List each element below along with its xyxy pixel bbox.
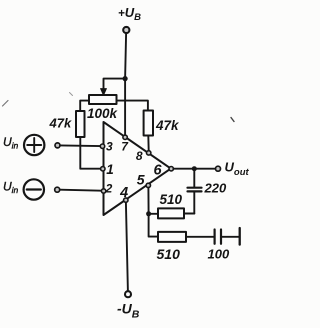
resistor R2 47k (right) body [144, 111, 153, 136]
+UB supply terminal [123, 27, 129, 33]
label 100k [87, 106, 119, 121]
potentiometer R3 100k body [89, 95, 117, 104]
label 47k left [49, 116, 72, 131]
label 47k right [155, 118, 180, 133]
svg-text:Uout: Uout [225, 160, 250, 178]
svg-text:Uin: Uin [3, 135, 19, 151]
wire junction down to pin 7 [124, 79, 126, 136]
resistor R4 510 (upper) body [158, 208, 184, 218]
pin 7 terminal [123, 135, 127, 139]
wire pin 4 down to -UB [126, 202, 128, 291]
svg-text:8: 8 [136, 149, 143, 163]
open end bar [239, 228, 241, 245]
pot right lead (crosses main vertical, no dot) [117, 101, 148, 111]
pin 4 terminal [124, 198, 128, 202]
wire input- to pin 2 [60, 190, 102, 191]
capacitor C1 bottom lead [193, 191, 195, 213]
label Uin bottom [3, 180, 19, 196]
R2 bottom lead to pin 8 [147, 136, 149, 152]
input terminal plus [55, 143, 60, 148]
svg-text:Uin: Uin [3, 180, 19, 196]
svg-text:1: 1 [106, 162, 114, 177]
node feedback junction [146, 211, 151, 216]
pin number 2 [105, 182, 113, 196]
label 220 [204, 181, 227, 196]
resistor R5 510 (lower) body [158, 232, 186, 242]
svg-text:+UB: +UB [118, 5, 141, 23]
wire output pin 6 to Uout [174, 168, 216, 170]
stray scan speck left [70, 93, 73, 96]
pin number 6 [153, 163, 162, 179]
wire pin 5 down to junction [147, 188, 149, 214]
pot left lead [80, 101, 89, 111]
wire R4 right to C1 bottom [184, 213, 194, 215]
label +UB [118, 5, 141, 23]
svg-text:47k: 47k [49, 116, 72, 131]
pin 3 terminal [100, 144, 104, 148]
node output junction [192, 166, 197, 171]
input terminal minus [55, 187, 60, 192]
pin number 7 [121, 139, 129, 153]
label Uin top [3, 135, 19, 151]
svg-text:100k: 100k [87, 106, 119, 121]
pin 1 terminal [101, 167, 105, 171]
label 510 upper [160, 192, 183, 207]
pin number 5 [137, 172, 145, 188]
potentiometer wiper arm with arrow [101, 79, 123, 96]
label 100 [208, 247, 230, 262]
wire R5 right to C2 [186, 236, 214, 238]
node wiper junction [123, 76, 128, 81]
svg-text:220: 220 [204, 181, 227, 196]
capacitor C1 220 top lead [193, 169, 195, 187]
resistor R1 47k (left) body [76, 111, 85, 137]
svg-text:510: 510 [160, 192, 183, 207]
svg-text:47k: 47k [155, 118, 180, 133]
Uin- source symbol [24, 179, 44, 199]
pin number 4 [119, 185, 128, 201]
stray scan tick bottom-left [3, 101, 9, 107]
wire junction down to R5 left [149, 214, 158, 237]
svg-text:4: 4 [119, 185, 128, 201]
svg-text:6: 6 [153, 163, 162, 179]
capacitor C2 100 plates [215, 230, 221, 244]
Uin+ source symbol [24, 135, 44, 155]
svg-text:-UB: -UB [117, 301, 140, 321]
wire +UB down to wiper junction [125, 34, 126, 79]
pin 6 output terminal [169, 167, 173, 171]
svg-text:7: 7 [121, 139, 129, 153]
label 510 lower [157, 246, 181, 262]
svg-text:5: 5 [137, 172, 145, 188]
pin number 1 [106, 162, 114, 177]
pin number 8 [136, 149, 143, 163]
pin number 3 [106, 139, 113, 153]
pin 5 terminal [146, 183, 150, 187]
pin 2 terminal [101, 189, 105, 193]
-UB supply terminal [125, 291, 131, 297]
wire input+ to pin 3 [60, 144, 100, 147]
wire junction to R4 left [149, 213, 158, 215]
svg-text:100: 100 [208, 247, 230, 262]
wire C2 to open end [221, 236, 239, 238]
svg-text:3: 3 [106, 139, 113, 153]
svg-text:510: 510 [157, 246, 181, 262]
capacitor C1 220 plates [188, 188, 202, 192]
R1 bottom lead crossing input wire to pin 1 [80, 137, 100, 169]
svg-text:2: 2 [105, 182, 113, 196]
op-amp U1 triangle [104, 122, 171, 215]
label -UB [117, 301, 140, 321]
stray scan tick right [231, 118, 234, 122]
Uout terminal [216, 166, 221, 171]
label Uout [225, 160, 250, 178]
pin 8 terminal [147, 151, 151, 155]
